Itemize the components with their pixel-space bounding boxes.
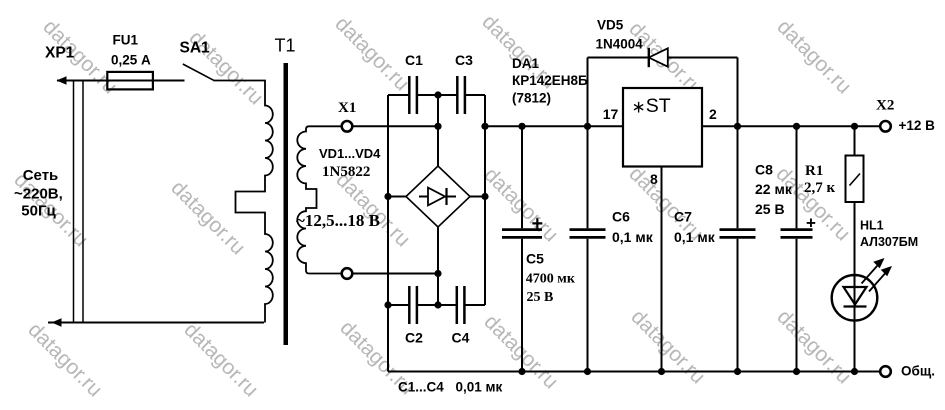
- svg-text:C3: C3: [455, 52, 473, 68]
- svg-text:datagor.ru: datagor.ru: [330, 12, 413, 95]
- svg-text:25 В: 25 В: [755, 201, 785, 217]
- svg-text:2: 2: [709, 106, 717, 122]
- svg-text:1N5822: 1N5822: [322, 164, 370, 180]
- svg-text:datagor.ru: datagor.ru: [179, 318, 262, 401]
- svg-text:50Гц: 50Гц: [21, 202, 56, 219]
- svg-text:C1: C1: [405, 52, 423, 68]
- svg-text:Сеть: Сеть: [23, 167, 59, 184]
- svg-text:C8: C8: [755, 162, 773, 178]
- svg-text:8: 8: [650, 171, 658, 187]
- svg-text:КР142ЕН8Б: КР142ЕН8Б: [512, 73, 588, 88]
- svg-text:C5: C5: [526, 251, 544, 267]
- svg-text:C4: C4: [452, 330, 470, 346]
- svg-text:datagor.ru: datagor.ru: [626, 305, 709, 388]
- svg-text:+12 В: +12 В: [899, 118, 936, 133]
- svg-text:1N4004: 1N4004: [596, 37, 644, 52]
- svg-text:datagor.ru: datagor.ru: [23, 318, 106, 401]
- svg-text:HL1: HL1: [860, 218, 884, 232]
- svg-text:C7: C7: [674, 209, 692, 225]
- svg-text:X2: X2: [876, 97, 894, 113]
- svg-text:datagor.ru: datagor.ru: [772, 15, 855, 98]
- svg-text:0,25 А: 0,25 А: [111, 53, 151, 68]
- svg-text:DA1: DA1: [512, 56, 539, 71]
- svg-text:datagor.ru: datagor.ru: [166, 176, 249, 259]
- svg-text:VD5: VD5: [597, 18, 624, 33]
- svg-text:X1: X1: [338, 100, 356, 116]
- svg-text:25 В: 25 В: [527, 290, 554, 305]
- svg-text:Общ.: Общ.: [901, 363, 935, 378]
- svg-text:C1...C4: C1...C4: [398, 379, 444, 394]
- svg-text:0,1 мк: 0,1 мк: [674, 229, 716, 245]
- svg-text:~12,5...18 В: ~12,5...18 В: [296, 211, 380, 230]
- svg-text:АЛ307БМ: АЛ307БМ: [860, 235, 918, 249]
- svg-text:C2: C2: [405, 330, 423, 346]
- svg-text:+: +: [806, 214, 816, 233]
- svg-text:∗ST: ∗ST: [632, 95, 671, 117]
- svg-text:C6: C6: [612, 209, 630, 225]
- svg-text:(7812): (7812): [512, 91, 551, 106]
- svg-text:~220В,: ~220В,: [14, 185, 63, 202]
- svg-text:0,01 мк: 0,01 мк: [456, 379, 503, 394]
- svg-text:VD1...VD4: VD1...VD4: [319, 146, 381, 161]
- svg-text:ХР1: ХР1: [45, 44, 75, 61]
- svg-text:17: 17: [603, 106, 619, 122]
- svg-text:+: +: [532, 213, 544, 235]
- svg-text:2,7 к: 2,7 к: [804, 180, 836, 196]
- svg-text:22 мк: 22 мк: [755, 181, 793, 197]
- svg-text:R1: R1: [805, 163, 823, 179]
- svg-text:SA1: SA1: [180, 39, 211, 56]
- svg-text:datagor.ru: datagor.ru: [331, 168, 414, 251]
- svg-text:T1: T1: [275, 36, 296, 56]
- svg-text:FU1: FU1: [113, 32, 139, 47]
- svg-text:0,1 мк: 0,1 мк: [612, 229, 654, 245]
- svg-text:4700 мк: 4700 мк: [526, 272, 576, 287]
